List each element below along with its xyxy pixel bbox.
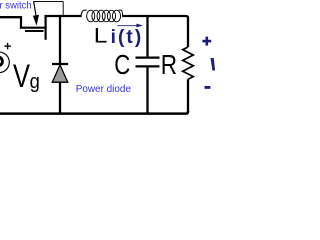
gate drive arrow <box>33 1 39 26</box>
wire <box>122 16 188 47</box>
output minus <box>205 86 211 89</box>
output plus <box>202 37 211 46</box>
wire <box>45 15 82 17</box>
resistor R <box>183 47 194 112</box>
svg-text:i(t): i(t) <box>111 27 144 48</box>
wire <box>0 111 188 114</box>
inductor L <box>81 10 123 22</box>
svg-text:V: V <box>13 58 30 94</box>
diode D1 <box>52 15 68 114</box>
svg-text:v: v <box>209 50 215 76</box>
svg-text:C: C <box>114 49 130 80</box>
transistor Q1 power switch <box>20 15 47 40</box>
callout leader lines <box>33 2 63 16</box>
svg-text:Power diode: Power diode <box>76 84 132 95</box>
svg-text:Power switch: Power switch <box>0 1 32 12</box>
wire <box>0 16 22 18</box>
svg-text:g: g <box>30 70 40 93</box>
svg-text:R: R <box>161 49 177 80</box>
capacitor C <box>136 15 160 114</box>
svg-text:L: L <box>94 23 108 47</box>
voltage source Vg <box>0 43 11 73</box>
current arrow i(t) <box>117 24 143 28</box>
